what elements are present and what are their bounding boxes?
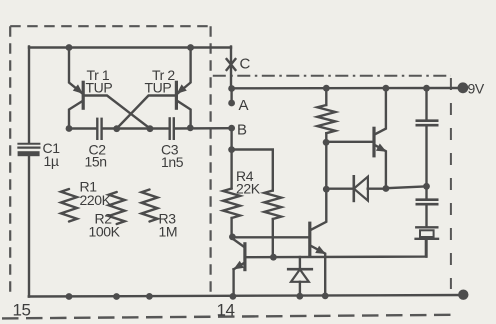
svg-text:100K: 100K xyxy=(89,224,121,240)
svg-text:9V: 9V xyxy=(468,81,485,97)
svg-text:15: 15 xyxy=(13,301,31,320)
svg-text:TUP: TUP xyxy=(86,80,113,96)
svg-text:TUP: TUP xyxy=(145,80,172,96)
svg-text:14: 14 xyxy=(217,301,235,320)
svg-text:1n5: 1n5 xyxy=(161,154,184,170)
svg-text:B: B xyxy=(237,122,247,139)
svg-text:C: C xyxy=(240,56,251,73)
svg-text:A: A xyxy=(239,97,249,114)
svg-text:220K: 220K xyxy=(80,192,112,208)
svg-text:22K: 22K xyxy=(236,181,261,197)
svg-text:15n: 15n xyxy=(85,154,107,170)
svg-text:1µ: 1µ xyxy=(44,153,59,169)
svg-text:1M: 1M xyxy=(159,224,178,240)
